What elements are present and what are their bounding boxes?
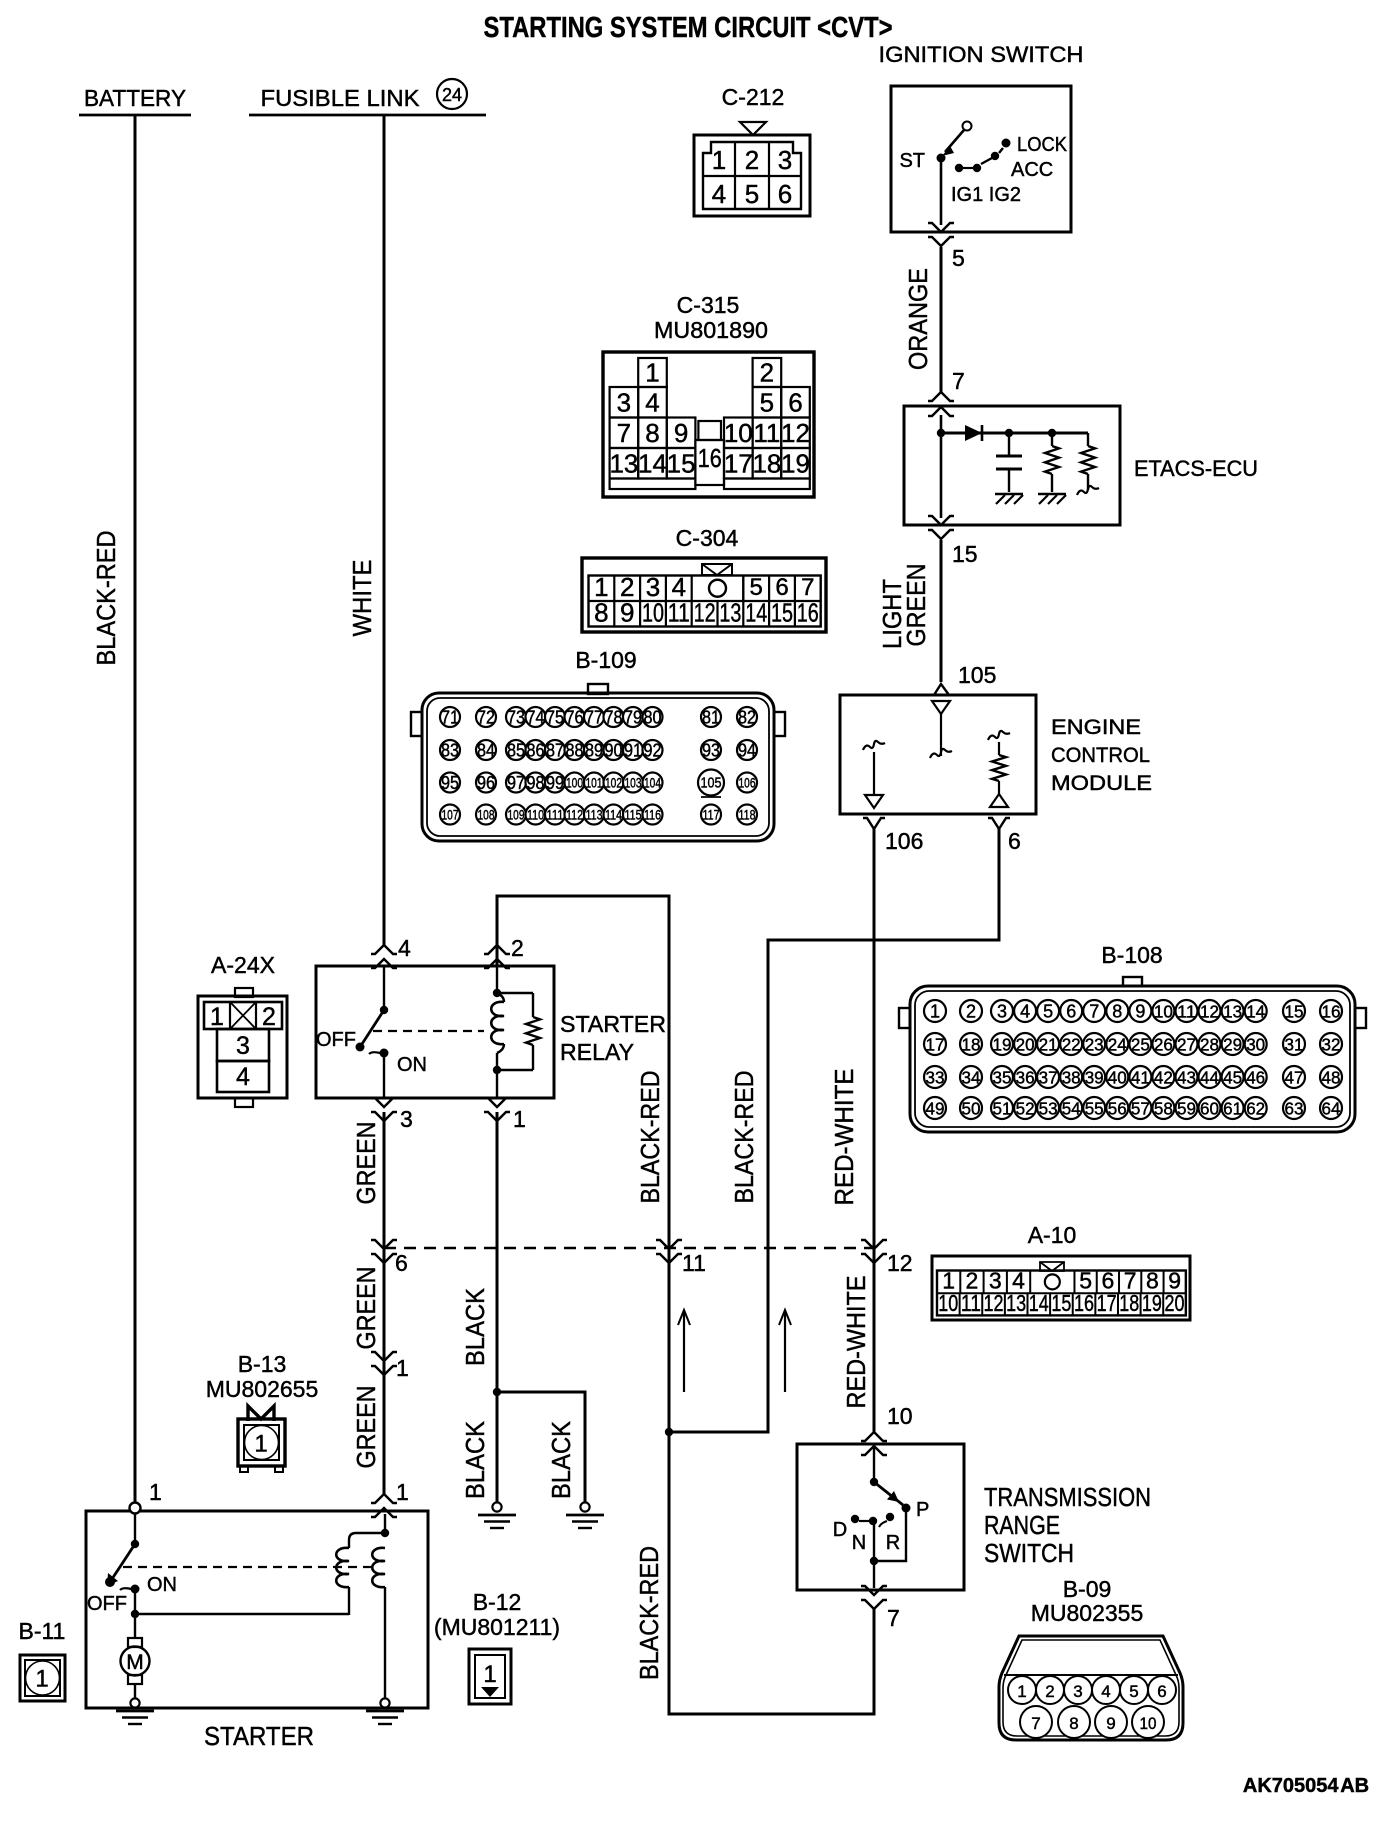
svg-text:7: 7 bbox=[1089, 1002, 1099, 1022]
svg-text:97: 97 bbox=[507, 773, 525, 793]
svg-text:14: 14 bbox=[1246, 1002, 1265, 1022]
svg-text:15: 15 bbox=[667, 448, 696, 478]
svg-text:116: 116 bbox=[644, 808, 661, 823]
svg-text:AK705054 AB: AK705054 AB bbox=[1243, 1775, 1369, 1797]
svg-text:1: 1 bbox=[396, 1355, 409, 1381]
svg-text:10: 10 bbox=[1140, 1714, 1157, 1733]
wire relay pin1 BLACK grounds bbox=[478, 1112, 604, 1528]
svg-text:84: 84 bbox=[477, 741, 495, 761]
direction arrow 1 bbox=[678, 1310, 690, 1392]
connector C-304 bbox=[582, 525, 826, 632]
svg-text:C-212: C-212 bbox=[722, 84, 785, 110]
svg-text:27: 27 bbox=[1177, 1035, 1196, 1055]
svg-text:MU801890: MU801890 bbox=[654, 317, 768, 343]
svg-text:GREEN: GREEN bbox=[351, 1267, 381, 1350]
svg-text:BLACK: BLACK bbox=[460, 1287, 490, 1366]
svg-text:73: 73 bbox=[507, 708, 525, 728]
svg-text:B-09: B-09 bbox=[1063, 1576, 1112, 1602]
svg-text:56: 56 bbox=[1108, 1099, 1127, 1119]
svg-text:20: 20 bbox=[1165, 1290, 1185, 1316]
svg-text:7: 7 bbox=[952, 368, 965, 394]
svg-text:OFF: OFF bbox=[316, 1029, 356, 1051]
svg-text:RED-WHITE: RED-WHITE bbox=[841, 1276, 871, 1409]
label GREEN 2 bbox=[351, 1267, 381, 1350]
svg-text:5: 5 bbox=[952, 245, 965, 271]
battery terminal bbox=[79, 85, 191, 115]
svg-text:SWITCH: SWITCH bbox=[984, 1538, 1074, 1568]
svg-text:13: 13 bbox=[1006, 1290, 1026, 1316]
connector B-109 bbox=[411, 647, 785, 841]
svg-text:16: 16 bbox=[698, 443, 722, 473]
svg-text:3: 3 bbox=[997, 1002, 1007, 1022]
svg-text:101: 101 bbox=[586, 776, 603, 791]
svg-text:59: 59 bbox=[1177, 1099, 1196, 1119]
svg-text:112: 112 bbox=[566, 808, 583, 823]
svg-text:STARTER: STARTER bbox=[560, 1011, 666, 1037]
label BLACK-RED upper bbox=[635, 1071, 665, 1204]
svg-text:91: 91 bbox=[624, 741, 642, 761]
svg-text:9: 9 bbox=[674, 418, 688, 448]
svg-text:92: 92 bbox=[644, 741, 662, 761]
svg-text:D: D bbox=[833, 1519, 847, 1541]
svg-text:86: 86 bbox=[527, 741, 545, 761]
wire relay pin2 BLACK-RED bbox=[497, 896, 706, 1436]
svg-text:105: 105 bbox=[958, 662, 996, 688]
svg-text:OFF: OFF bbox=[87, 1593, 127, 1615]
svg-text:96: 96 bbox=[477, 773, 495, 793]
label GREEN 3 bbox=[351, 1386, 381, 1469]
svg-text:GREEN: GREEN bbox=[901, 564, 931, 647]
svg-text:39: 39 bbox=[1085, 1068, 1104, 1088]
svg-text:CONTROL: CONTROL bbox=[1051, 744, 1150, 767]
svg-text:75: 75 bbox=[546, 708, 564, 728]
svg-text:47: 47 bbox=[1285, 1068, 1304, 1088]
svg-text:12: 12 bbox=[694, 598, 716, 628]
svg-text:LOCK: LOCK bbox=[1017, 134, 1068, 156]
svg-text:1: 1 bbox=[483, 1661, 496, 1688]
svg-text:6: 6 bbox=[1008, 828, 1021, 854]
svg-text:9: 9 bbox=[620, 598, 634, 628]
svg-text:GREEN: GREEN bbox=[351, 1122, 381, 1205]
label WHITE bbox=[347, 560, 377, 637]
svg-text:13: 13 bbox=[719, 598, 741, 628]
svg-text:22: 22 bbox=[1062, 1035, 1081, 1055]
svg-text:104: 104 bbox=[644, 776, 661, 791]
svg-text:16: 16 bbox=[797, 598, 819, 628]
svg-text:10: 10 bbox=[887, 1403, 913, 1429]
svg-text:BLACK: BLACK bbox=[460, 1420, 490, 1499]
svg-text:6: 6 bbox=[778, 179, 792, 209]
svg-text:8: 8 bbox=[1112, 1002, 1122, 1022]
connector B-12 bbox=[434, 1589, 560, 1704]
svg-text:2: 2 bbox=[745, 145, 759, 175]
label GREEN 1 bbox=[351, 1122, 381, 1205]
svg-text:48: 48 bbox=[1322, 1068, 1341, 1088]
connector A-24X bbox=[198, 952, 287, 1107]
svg-text:15: 15 bbox=[952, 541, 978, 567]
svg-text:77: 77 bbox=[585, 708, 603, 728]
svg-text:19: 19 bbox=[1142, 1290, 1162, 1316]
svg-text:5: 5 bbox=[745, 179, 759, 209]
svg-text:43: 43 bbox=[1177, 1068, 1196, 1088]
svg-text:WHITE: WHITE bbox=[347, 560, 377, 637]
svg-text:6: 6 bbox=[1157, 1682, 1166, 1701]
svg-text:45: 45 bbox=[1223, 1068, 1242, 1088]
svg-text:MU802355: MU802355 bbox=[1031, 1600, 1144, 1626]
svg-text:5: 5 bbox=[760, 387, 774, 417]
svg-text:78: 78 bbox=[605, 708, 623, 728]
svg-text:4: 4 bbox=[1101, 1682, 1110, 1701]
svg-text:3: 3 bbox=[778, 145, 792, 175]
svg-text:ST: ST bbox=[899, 150, 925, 172]
svg-text:BLACK-RED: BLACK-RED bbox=[634, 1546, 664, 1680]
svg-text:7: 7 bbox=[617, 418, 631, 448]
svg-text:60: 60 bbox=[1200, 1099, 1219, 1119]
svg-text:7: 7 bbox=[1031, 1714, 1040, 1733]
svg-text:107: 107 bbox=[442, 808, 459, 823]
svg-text:111: 111 bbox=[547, 808, 564, 823]
svg-text:88: 88 bbox=[566, 741, 584, 761]
svg-text:109: 109 bbox=[508, 808, 525, 823]
svg-text:12: 12 bbox=[984, 1290, 1004, 1316]
svg-text:71: 71 bbox=[441, 708, 459, 728]
svg-text:83: 83 bbox=[441, 741, 459, 761]
svg-text:30: 30 bbox=[1246, 1035, 1265, 1055]
svg-text:29: 29 bbox=[1223, 1035, 1242, 1055]
svg-text:6: 6 bbox=[788, 387, 802, 417]
svg-text:55: 55 bbox=[1085, 1099, 1104, 1119]
connector C-212 bbox=[694, 84, 810, 216]
wire relay pin3 GREEN bbox=[371, 1112, 409, 1517]
svg-text:12: 12 bbox=[781, 418, 810, 448]
svg-text:4: 4 bbox=[645, 387, 659, 417]
svg-text:7: 7 bbox=[887, 1605, 900, 1631]
svg-text:STARTING SYSTEM CIRCUIT <CVT>: STARTING SYSTEM CIRCUIT <CVT> bbox=[484, 12, 893, 44]
svg-text:B-13: B-13 bbox=[238, 1351, 287, 1377]
wire battery BLACK-RED bbox=[134, 115, 137, 1504]
svg-text:ACC: ACC bbox=[1011, 159, 1053, 181]
svg-text:35: 35 bbox=[993, 1068, 1012, 1088]
direction arrow 2 bbox=[779, 1310, 791, 1392]
connector B-11 bbox=[19, 1618, 66, 1701]
svg-text:5: 5 bbox=[1043, 1002, 1053, 1022]
svg-text:11: 11 bbox=[668, 598, 690, 628]
svg-text:37: 37 bbox=[1039, 1068, 1058, 1088]
svg-text:20: 20 bbox=[1016, 1035, 1035, 1055]
label BLACK 3 bbox=[546, 1420, 576, 1499]
svg-text:BATTERY: BATTERY bbox=[84, 85, 186, 111]
svg-text:ON: ON bbox=[147, 1574, 177, 1596]
dashed harness line bbox=[384, 1247, 874, 1250]
ETACS-ECU bbox=[904, 406, 1258, 525]
label BLACK-RED mid bbox=[729, 1071, 759, 1204]
svg-text:10: 10 bbox=[642, 598, 664, 628]
svg-text:100: 100 bbox=[566, 776, 583, 791]
svg-text:6: 6 bbox=[1066, 1002, 1076, 1022]
svg-text:118: 118 bbox=[739, 808, 756, 823]
svg-text:113: 113 bbox=[586, 808, 603, 823]
svg-text:11: 11 bbox=[682, 1250, 706, 1276]
svg-text:117: 117 bbox=[703, 808, 720, 823]
svg-text:8: 8 bbox=[594, 598, 608, 628]
svg-text:46: 46 bbox=[1246, 1068, 1265, 1088]
svg-text:17: 17 bbox=[1097, 1290, 1117, 1316]
svg-text:18: 18 bbox=[752, 448, 781, 478]
wire ECM pin6 BLACK-RED bbox=[669, 818, 1021, 1432]
svg-text:16: 16 bbox=[1322, 1002, 1341, 1022]
label RED-WHITE upper bbox=[829, 1069, 859, 1206]
svg-text:5: 5 bbox=[1129, 1682, 1138, 1701]
svg-text:38: 38 bbox=[1062, 1068, 1081, 1088]
svg-text:15: 15 bbox=[771, 598, 793, 628]
svg-text:40: 40 bbox=[1108, 1068, 1127, 1088]
svg-text:TRANSMISSION: TRANSMISSION bbox=[984, 1482, 1151, 1512]
svg-text:87: 87 bbox=[546, 741, 564, 761]
svg-text:4: 4 bbox=[712, 179, 726, 209]
svg-text:50: 50 bbox=[962, 1099, 981, 1119]
svg-text:1: 1 bbox=[1017, 1682, 1026, 1701]
svg-text:103: 103 bbox=[625, 776, 642, 791]
svg-text:ORANGE: ORANGE bbox=[903, 268, 933, 370]
svg-text:108: 108 bbox=[478, 808, 495, 823]
svg-text:M: M bbox=[126, 1651, 144, 1674]
svg-text:6: 6 bbox=[395, 1250, 408, 1276]
wire fusible link WHITE bbox=[383, 115, 386, 947]
svg-text:B-12: B-12 bbox=[473, 1589, 522, 1615]
svg-text:24: 24 bbox=[1108, 1035, 1127, 1055]
label LIGHT GREEN bbox=[877, 564, 931, 650]
svg-text:63: 63 bbox=[1285, 1099, 1304, 1119]
svg-text:33: 33 bbox=[926, 1068, 945, 1088]
svg-text:RELAY: RELAY bbox=[560, 1039, 634, 1065]
connector B-13 bbox=[206, 1351, 319, 1472]
svg-text:19: 19 bbox=[993, 1035, 1012, 1055]
svg-text:11: 11 bbox=[1177, 1002, 1196, 1022]
svg-text:15: 15 bbox=[1285, 1002, 1304, 1022]
svg-text:106: 106 bbox=[739, 776, 756, 791]
svg-text:74: 74 bbox=[527, 708, 545, 728]
svg-text:MU802655: MU802655 bbox=[206, 1376, 319, 1402]
label RED-WHITE lower bbox=[841, 1276, 871, 1409]
svg-text:85: 85 bbox=[507, 741, 525, 761]
svg-text:94: 94 bbox=[738, 741, 756, 761]
svg-text:19: 19 bbox=[781, 448, 810, 478]
svg-text:10: 10 bbox=[1154, 1002, 1173, 1022]
svg-text:ETACS-ECU: ETACS-ECU bbox=[1134, 456, 1258, 481]
svg-text:A-24X: A-24X bbox=[211, 952, 275, 978]
svg-text:64: 64 bbox=[1322, 1099, 1341, 1119]
svg-text:C-304: C-304 bbox=[676, 525, 739, 551]
svg-text:1: 1 bbox=[254, 1431, 267, 1458]
engine control module bbox=[840, 695, 1152, 814]
svg-text:IG1 IG2: IG1 IG2 bbox=[951, 184, 1021, 206]
svg-text:102: 102 bbox=[605, 776, 622, 791]
svg-text:4: 4 bbox=[1020, 1002, 1030, 1022]
svg-text:76: 76 bbox=[566, 708, 584, 728]
wire ignition pin5 ORANGE bbox=[928, 223, 965, 416]
svg-text:24: 24 bbox=[442, 85, 462, 105]
svg-text:49: 49 bbox=[926, 1099, 945, 1119]
label BLACK-RED bbox=[91, 531, 121, 666]
svg-text:28: 28 bbox=[1200, 1035, 1219, 1055]
svg-text:93: 93 bbox=[702, 741, 720, 761]
svg-text:1: 1 bbox=[930, 1002, 940, 1022]
svg-text:BLACK: BLACK bbox=[546, 1420, 576, 1499]
ignition switch bbox=[879, 42, 1084, 232]
svg-text:IGNITION SWITCH: IGNITION SWITCH bbox=[879, 42, 1084, 67]
svg-text:26: 26 bbox=[1154, 1035, 1173, 1055]
svg-text:14: 14 bbox=[745, 598, 767, 628]
svg-text:B-11: B-11 bbox=[19, 1618, 66, 1644]
svg-text:2: 2 bbox=[760, 358, 774, 388]
label BLACK 2 bbox=[460, 1420, 490, 1499]
svg-text:95: 95 bbox=[441, 773, 459, 793]
svg-text:32: 32 bbox=[1322, 1035, 1341, 1055]
svg-text:12: 12 bbox=[1200, 1002, 1219, 1022]
svg-text:R: R bbox=[886, 1532, 900, 1554]
label BLACK-RED lower bbox=[634, 1546, 664, 1680]
svg-text:2: 2 bbox=[262, 1003, 276, 1031]
svg-text:2: 2 bbox=[966, 1002, 976, 1022]
svg-text:17: 17 bbox=[724, 448, 753, 478]
wire to TRS pin7 BLACK-RED bbox=[669, 1432, 900, 1714]
svg-text:106: 106 bbox=[885, 828, 923, 854]
svg-text:51: 51 bbox=[993, 1099, 1012, 1119]
svg-text:89: 89 bbox=[585, 741, 603, 761]
svg-text:58: 58 bbox=[1154, 1099, 1173, 1119]
svg-text:14: 14 bbox=[1029, 1290, 1049, 1316]
svg-text:98: 98 bbox=[527, 773, 545, 793]
svg-text:34: 34 bbox=[962, 1068, 981, 1088]
svg-text:RED-WHITE: RED-WHITE bbox=[829, 1069, 859, 1206]
title bbox=[484, 12, 893, 44]
svg-text:2: 2 bbox=[1045, 1682, 1054, 1701]
svg-text:1: 1 bbox=[35, 1666, 48, 1693]
svg-text:4: 4 bbox=[236, 1063, 250, 1091]
svg-text:B-109: B-109 bbox=[575, 647, 636, 673]
svg-text:62: 62 bbox=[1246, 1099, 1265, 1119]
starter relay bbox=[316, 935, 666, 1132]
svg-text:RANGE: RANGE bbox=[984, 1510, 1060, 1540]
svg-text:14: 14 bbox=[638, 448, 667, 478]
svg-text:1: 1 bbox=[645, 358, 659, 388]
svg-text:3: 3 bbox=[400, 1106, 413, 1132]
svg-text:ON: ON bbox=[397, 1054, 427, 1076]
svg-text:B-108: B-108 bbox=[1101, 942, 1162, 968]
svg-text:61: 61 bbox=[1223, 1099, 1242, 1119]
svg-text:42: 42 bbox=[1154, 1068, 1173, 1088]
svg-text:13: 13 bbox=[1223, 1002, 1242, 1022]
starter bbox=[86, 1479, 428, 1751]
fusible link 24 terminal bbox=[249, 79, 486, 115]
label ORANGE bbox=[903, 268, 933, 370]
svg-text:8: 8 bbox=[1069, 1714, 1078, 1733]
svg-text:54: 54 bbox=[1062, 1099, 1081, 1119]
svg-text:ENGINE: ENGINE bbox=[1051, 716, 1141, 739]
svg-text:115: 115 bbox=[625, 808, 642, 823]
svg-text:N: N bbox=[852, 1532, 866, 1554]
svg-text:GREEN: GREEN bbox=[351, 1386, 381, 1469]
svg-text:2: 2 bbox=[511, 935, 524, 961]
svg-text:MODULE: MODULE bbox=[1051, 772, 1152, 795]
svg-text:18: 18 bbox=[962, 1035, 981, 1055]
connector C-315 bbox=[603, 292, 814, 497]
svg-text:81: 81 bbox=[702, 708, 720, 728]
connector B-09 bbox=[999, 1576, 1183, 1740]
svg-text:80: 80 bbox=[644, 708, 662, 728]
svg-text:1: 1 bbox=[210, 1003, 224, 1031]
svg-text:72: 72 bbox=[477, 708, 495, 728]
svg-text:A-10: A-10 bbox=[1028, 1222, 1077, 1248]
connector B-108 bbox=[899, 942, 1366, 1132]
svg-text:105: 105 bbox=[701, 775, 722, 792]
svg-text:1: 1 bbox=[513, 1106, 526, 1132]
connector A-10 bbox=[932, 1222, 1190, 1320]
svg-text:114: 114 bbox=[605, 808, 622, 823]
svg-text:BLACK-RED: BLACK-RED bbox=[729, 1071, 759, 1204]
svg-text:9: 9 bbox=[1106, 1714, 1115, 1733]
svg-text:17: 17 bbox=[926, 1035, 945, 1055]
svg-text:99: 99 bbox=[546, 773, 564, 793]
svg-text:53: 53 bbox=[1039, 1099, 1058, 1119]
svg-text:110: 110 bbox=[527, 808, 544, 823]
svg-text:36: 36 bbox=[1016, 1068, 1035, 1088]
svg-text:8: 8 bbox=[645, 418, 659, 448]
svg-text:11: 11 bbox=[753, 418, 780, 448]
footer code bbox=[1243, 1775, 1369, 1797]
svg-text:FUSIBLE LINK: FUSIBLE LINK bbox=[261, 85, 421, 111]
svg-text:52: 52 bbox=[1016, 1099, 1035, 1119]
wire ECM pin106 RED-WHITE bbox=[861, 818, 923, 1455]
svg-text:82: 82 bbox=[738, 708, 756, 728]
svg-text:3: 3 bbox=[236, 1032, 250, 1060]
svg-text:BLACK-RED: BLACK-RED bbox=[91, 531, 121, 666]
svg-text:1: 1 bbox=[712, 145, 726, 175]
svg-text:13: 13 bbox=[609, 448, 638, 478]
svg-text:25: 25 bbox=[1131, 1035, 1150, 1055]
svg-text:9: 9 bbox=[1135, 1002, 1145, 1022]
svg-text:18: 18 bbox=[1119, 1290, 1139, 1316]
svg-text:P: P bbox=[916, 1499, 929, 1521]
svg-text:1: 1 bbox=[396, 1479, 409, 1505]
svg-text:3: 3 bbox=[1073, 1682, 1082, 1701]
svg-text:1: 1 bbox=[149, 1479, 162, 1505]
svg-text:90: 90 bbox=[605, 741, 623, 761]
svg-text:4: 4 bbox=[398, 935, 411, 961]
svg-text:16: 16 bbox=[1074, 1290, 1094, 1316]
svg-text:44: 44 bbox=[1200, 1068, 1219, 1088]
svg-text:10: 10 bbox=[724, 418, 753, 448]
svg-text:23: 23 bbox=[1085, 1035, 1104, 1055]
svg-text:11: 11 bbox=[961, 1290, 981, 1316]
svg-text:12: 12 bbox=[887, 1250, 913, 1276]
svg-text:15: 15 bbox=[1051, 1290, 1071, 1316]
label BLACK 1 bbox=[460, 1287, 490, 1366]
svg-text:41: 41 bbox=[1131, 1068, 1150, 1088]
svg-text:C-315: C-315 bbox=[677, 292, 740, 318]
svg-text:10: 10 bbox=[938, 1290, 958, 1316]
svg-text:31: 31 bbox=[1285, 1035, 1304, 1055]
svg-text:(MU801211): (MU801211) bbox=[434, 1614, 560, 1640]
svg-text:57: 57 bbox=[1131, 1099, 1150, 1119]
svg-text:STARTER: STARTER bbox=[204, 1721, 314, 1751]
svg-text:79: 79 bbox=[624, 708, 642, 728]
svg-text:3: 3 bbox=[617, 387, 631, 417]
wire ETACS pin15 LIGHT GREEN bbox=[928, 516, 996, 695]
svg-text:21: 21 bbox=[1039, 1035, 1058, 1055]
svg-text:BLACK-RED: BLACK-RED bbox=[635, 1071, 665, 1204]
transmission range switch bbox=[797, 1444, 1151, 1590]
